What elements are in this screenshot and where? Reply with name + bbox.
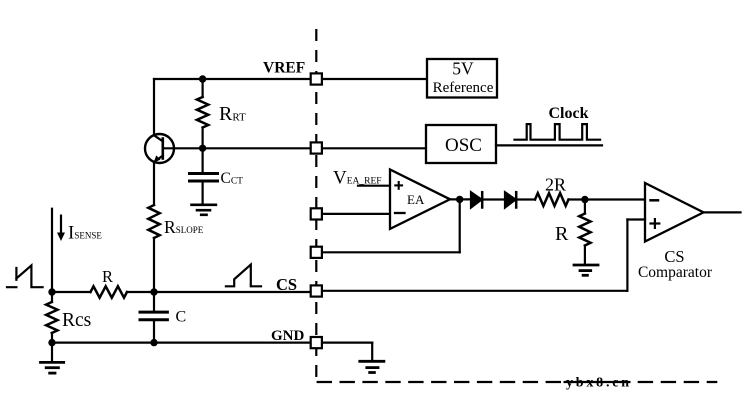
wire CS left (52, 291, 91, 293)
dashed line horizontal right part (638, 381, 718, 383)
svg-text:2R: 2R (545, 174, 566, 194)
resistor RCS (51, 292, 53, 302)
svg-text:R: R (555, 223, 569, 245)
wire GND left (52, 342, 310, 344)
wire comparator output (704, 211, 741, 213)
wire ISENSE vertical (51, 209, 53, 292)
wire comparator plus input (627, 218, 645, 220)
minus sign comparator (651, 199, 659, 202)
wire GND right (322, 342, 372, 344)
resistor R horizontal (91, 286, 128, 297)
wire CS left 2 (127, 291, 310, 293)
wire 2R to comparator (569, 198, 646, 200)
dashed line vertical (315, 29, 317, 382)
pad EA output (311, 247, 322, 258)
resistor R vertical (584, 200, 586, 214)
svg-text:C: C (176, 309, 187, 326)
node dot RRT top (199, 75, 206, 82)
diode D2 (505, 192, 516, 207)
sawtooth symbol CS (226, 265, 261, 287)
svg-text:Reference: Reference (433, 80, 494, 96)
wire EA output (450, 198, 471, 200)
svg-text:Rcs: Rcs (62, 310, 91, 331)
minus sign EA (395, 212, 405, 214)
svg-text:R: R (102, 267, 113, 286)
pad EA minus (311, 208, 322, 219)
transistor Q1 (145, 134, 174, 163)
plus sign EA (394, 181, 403, 190)
ground under RCS (51, 343, 53, 363)
svg-text:EA: EA (407, 192, 425, 207)
pad GND (311, 337, 322, 348)
node dot GND-C (150, 339, 157, 346)
box 5V Reference (427, 59, 497, 98)
wire OSC output (496, 144, 602, 146)
arrow ISENSE (60, 216, 62, 235)
pad VREF (311, 73, 322, 84)
node dot base (199, 145, 206, 152)
wire feedback (459, 199, 461, 252)
strikethrough solid under watermark (564, 381, 631, 383)
wire CS right (322, 290, 628, 292)
node dot CS-Rcs (48, 288, 55, 295)
arrowhead ISENSE (57, 233, 65, 242)
svg-text:ybx8.cn: ybx8.cn (566, 375, 632, 390)
op-amp CS comparator (645, 183, 704, 242)
sawtooth symbol left (7, 265, 43, 287)
dashed line horizontal left part (317, 381, 561, 383)
resistor RRT (202, 79, 204, 97)
svg-text:CS: CS (276, 275, 297, 294)
pad CS (311, 285, 322, 296)
box OSC (426, 125, 496, 163)
svg-text:Clock: Clock (549, 105, 589, 122)
wire between diodes (484, 198, 506, 200)
node dot CS-C (150, 288, 157, 295)
ground under R (574, 264, 598, 267)
capacitor CCT (202, 148, 204, 173)
svg-text:GND: GND (271, 328, 305, 344)
pad OSC (311, 142, 322, 153)
arrowhead transistor emitter (154, 155, 161, 162)
capacitor C (153, 292, 155, 312)
plus sign comparator (651, 222, 660, 224)
resistor 2R (535, 193, 569, 206)
wire collector vertical (153, 79, 155, 135)
op-amp EA (390, 170, 450, 229)
svg-text:VREF: VREF (263, 60, 305, 77)
wire EA minus input (322, 213, 390, 215)
node dot 2R-R (581, 196, 588, 203)
svg-text:Comparator: Comparator (638, 264, 713, 281)
clock waveform (515, 124, 601, 140)
svg-text:OSC: OSC (445, 135, 482, 156)
wire VEA_REF stub (358, 185, 390, 187)
wire to 2R (518, 198, 536, 200)
wire VREF horizontal (154, 78, 427, 80)
svg-text:5V: 5V (452, 59, 474, 79)
diode D1 (471, 192, 482, 207)
ground under CCT (192, 204, 216, 207)
node dot EA out (456, 196, 463, 203)
ground right of GND pad (360, 360, 384, 363)
node dot GND-Rcs (48, 339, 55, 346)
resistor RSLOPE (148, 205, 159, 238)
wire base horizontal to OSC (163, 147, 426, 149)
wire emitter down (153, 162, 155, 205)
